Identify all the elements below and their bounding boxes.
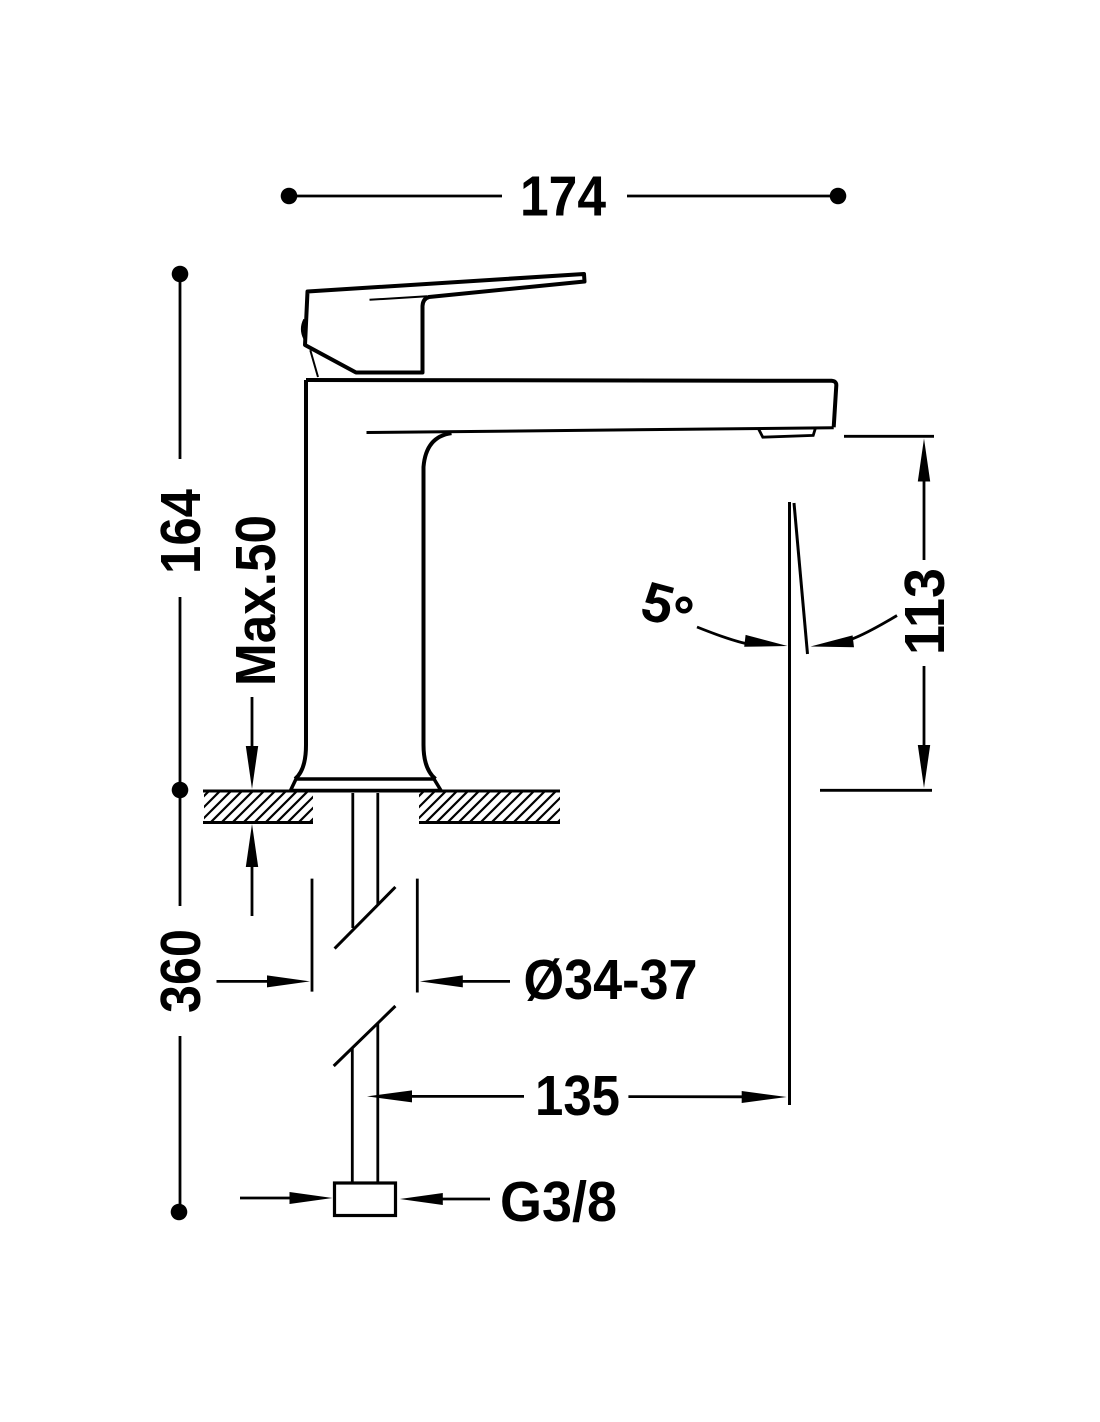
dimension 113 upper line bbox=[923, 480, 926, 560]
dimension 164 left: bottom dot (shared with 360) bbox=[172, 782, 189, 799]
dimension 360: bottom dot bbox=[171, 1204, 188, 1221]
dimension 174 top: right line segment bbox=[627, 195, 832, 198]
water stream 5 degree tilted line bbox=[794, 503, 808, 654]
dimension 164: lower line segment bbox=[179, 597, 182, 784]
svg-text:G3/8: G3/8 bbox=[500, 1170, 617, 1234]
shank lower right line bbox=[376, 1023, 379, 1183]
degree symbol of 5 degrees bbox=[678, 599, 691, 612]
angle left arc with arrowhead bbox=[697, 627, 754, 645]
diameter 34-37 right extension line bbox=[416, 879, 419, 993]
Max.50 down arrowhead bbox=[246, 746, 258, 789]
diameter 34-37 left arrow bbox=[217, 980, 271, 983]
countertop bottom line left bbox=[203, 821, 313, 824]
G3/8 connection rectangle bbox=[335, 1183, 396, 1216]
faucet body inner right edge with curve and base flare bbox=[424, 433, 452, 779]
shank upper left line bbox=[351, 793, 354, 928]
dimension 360: lower line segment bbox=[179, 1036, 182, 1205]
svg-text:164: 164 bbox=[149, 489, 213, 574]
dimension 113 bottom tick bbox=[820, 789, 932, 792]
svg-text:174: 174 bbox=[520, 165, 606, 229]
Max.50 lower arrowhead (pointing up) bbox=[246, 824, 258, 867]
faucet handle left pivot arc bbox=[302, 320, 304, 339]
shank break line 2 bbox=[334, 1006, 396, 1066]
dimension 113 up arrowhead bbox=[918, 439, 930, 482]
countertop hatching right block bbox=[390, 785, 595, 825]
countertop bottom line right bbox=[419, 821, 560, 824]
dimension 174 top: left line segment bbox=[295, 195, 502, 198]
dimension 113 top tick bbox=[844, 435, 934, 438]
faucet spout underside line bbox=[367, 428, 834, 433]
dimension 164 left: top dot bbox=[172, 266, 189, 283]
svg-text:113: 113 bbox=[893, 568, 957, 655]
dimension 174 top: left dot bbox=[281, 188, 298, 205]
dimension 135 right arrow bbox=[628, 1095, 744, 1098]
svg-text:135: 135 bbox=[535, 1064, 620, 1128]
svg-text:360: 360 bbox=[149, 929, 213, 1013]
dimension 113 lower line bbox=[923, 666, 926, 746]
shank upper right line bbox=[376, 793, 379, 904]
water stream vertical line bbox=[788, 502, 791, 1105]
svg-text:Ø34-37: Ø34-37 bbox=[524, 948, 698, 1012]
Max.50 lower extension line bbox=[251, 865, 254, 916]
faucet handle lower-left thin diagonal bbox=[310, 350, 318, 377]
faucet handle outline bbox=[305, 274, 585, 373]
dimension 164: upper line segment bbox=[179, 280, 182, 459]
dimension 113 down arrowhead bbox=[918, 745, 930, 788]
dimension 360: upper line segment bbox=[179, 797, 182, 906]
faucet body top edge and spout right edge bbox=[306, 380, 836, 427]
svg-text:Max.50: Max.50 bbox=[224, 515, 288, 686]
countertop hatching left block bbox=[175, 785, 347, 825]
faucet body left edge with base flare bbox=[295, 380, 306, 779]
diameter 34-37 left extension line bbox=[311, 879, 314, 992]
faucet handle inner edge line bbox=[370, 296, 428, 300]
G3/8 right arrow bbox=[442, 1198, 490, 1201]
G3/8 left arrow bbox=[240, 1197, 292, 1200]
shank break line 1 bbox=[335, 887, 396, 949]
faucet aerator bbox=[759, 429, 816, 438]
dimension 174 top: right dot bbox=[830, 188, 847, 205]
angle right arc with arrowhead bbox=[846, 616, 897, 642]
faucet base plate bbox=[291, 779, 442, 791]
dimension 135 left arrow bbox=[412, 1095, 524, 1098]
countertop top line bbox=[203, 790, 560, 793]
Max.50 upper extension line bbox=[251, 697, 254, 748]
diameter 34-37 right arrow bbox=[462, 980, 510, 983]
shank lower left line bbox=[351, 1048, 354, 1183]
